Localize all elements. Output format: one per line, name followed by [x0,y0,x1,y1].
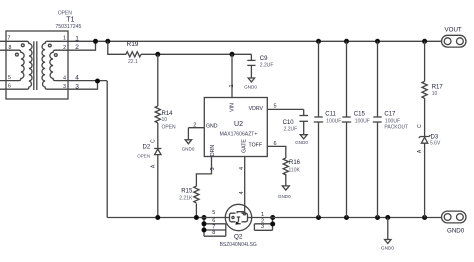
svg-text:VOUT: VOUT [445,26,462,33]
svg-text:R19: R19 [127,41,139,48]
Q2 drain bus pins 1-3 [272,218,274,231]
T1 primary winding A (pins 7-6) [0,41,32,89]
Q2 source bus pins 5-8 [203,218,205,237]
U2 pin 2 GND wire [188,127,204,129]
op IC U2 box [204,98,267,157]
svg-text:6: 6 [8,84,11,90]
resistor R19 [126,52,141,57]
svg-text:1: 1 [229,84,235,87]
junction [316,215,321,220]
svg-text:MAX17606AZT+: MAX17606AZT+ [220,131,258,137]
svg-text:Q2: Q2 [234,234,243,241]
junction [202,215,207,220]
transformer T1 box [6,31,68,99]
svg-text:C11: C11 [325,112,336,118]
svg-text:PACKOUT: PACKOUT [384,124,408,130]
svg-text:GND0: GND0 [295,140,308,145]
svg-text:GND: GND [206,124,218,130]
svg-text:6: 6 [273,141,276,147]
svg-text:R16: R16 [289,160,301,166]
junction [155,215,160,220]
resistor R16 [283,158,288,175]
resistor R14 [155,106,160,123]
svg-text:DRN: DRN [210,145,216,156]
junction [344,39,349,44]
ground GND0 under R16 [282,186,289,190]
svg-text:GND0: GND0 [182,146,195,151]
svg-text:7: 7 [8,35,11,41]
svg-text:VIN: VIN [230,103,236,112]
ground GND0 under U2 GND [185,140,191,144]
svg-text:OPEN: OPEN [137,154,150,159]
ground GND0 on rail [387,218,389,240]
svg-text:C: C [417,124,423,128]
svg-text:C: C [151,139,157,143]
node VOUT top rail [96,40,442,42]
junction [95,79,100,84]
T1 secondary winding B (pins 2-4) [50,41,107,80]
svg-text:4: 4 [239,167,245,170]
transistor Q2 [225,204,251,230]
svg-text:GATE: GATE [242,139,248,153]
junction [202,221,207,226]
svg-text:2.21K: 2.21K [179,195,193,201]
svg-text:U2: U2 [234,121,243,128]
svg-text:3: 3 [75,84,79,91]
svg-text:750317245: 750317245 [55,24,81,30]
svg-text:3: 3 [261,224,264,230]
svg-text:10: 10 [162,117,168,123]
connector GND0 [442,211,467,223]
wire to C9 and VIN [141,53,251,55]
connector VOUT [442,35,467,47]
junction [270,222,275,227]
svg-text:5: 5 [8,75,11,81]
svg-text:C15: C15 [354,112,366,118]
svg-text:2: 2 [75,44,79,51]
junction [344,215,349,220]
capacitor C17 [377,41,379,117]
wire R14/D2 branch [157,54,159,106]
svg-text:D3: D3 [431,134,439,140]
wire pin4 drop [106,81,108,218]
junction [316,39,321,44]
junction [194,215,199,220]
U2 pin 3 DRN wire [196,157,211,187]
svg-text:C17: C17 [384,112,396,118]
svg-text:VDRV: VDRV [249,106,264,112]
diode D2 [154,148,161,150]
svg-text:GND0: GND0 [244,85,257,90]
svg-text:5.6V: 5.6V [430,141,441,147]
svg-text:4: 4 [63,75,66,81]
capacitor C10 [303,109,305,115]
svg-text:GND0: GND0 [447,228,465,235]
resistor R17 [424,41,426,81]
capacitor C9 [250,54,252,60]
svg-text:4: 4 [239,191,245,194]
junction [422,215,427,220]
svg-text:22.1: 22.1 [128,59,138,65]
resistor R15 [194,186,199,203]
U2 pin 4 GATE wire [244,157,246,207]
U2 pin 5 VDRV wire [267,108,303,110]
svg-text:110K: 110K [289,168,301,174]
T1 primary winding B (pins 8-5) [0,50,24,80]
svg-text:GND0: GND0 [381,245,394,250]
svg-text:T1: T1 [66,17,74,24]
ground GND0 under C9 [248,78,254,82]
svg-text:1: 1 [63,35,66,41]
T1 core [33,41,35,90]
junction [270,215,275,220]
ground GND0 under C10 [300,135,307,139]
svg-text:2.2UF: 2.2UF [260,63,274,69]
svg-text:8: 8 [212,230,215,236]
junction [230,52,235,57]
svg-text:R17: R17 [432,85,444,91]
junction [93,39,98,44]
svg-text:4: 4 [75,74,79,81]
svg-text:100UF: 100UF [355,118,370,124]
svg-text:GND0: GND0 [278,194,291,199]
svg-text:R15: R15 [181,188,193,194]
svg-text:3: 3 [63,84,66,90]
junction [422,39,427,44]
node GND0 bottom rail left [107,217,226,219]
U2 pin 1 VIN wire [231,54,233,97]
svg-text:1: 1 [75,36,79,43]
svg-text:D2: D2 [143,145,151,151]
svg-text:OPEN: OPEN [162,125,177,131]
svg-text:5: 5 [273,103,276,109]
junction [375,39,380,44]
T1 primary polarity dots [21,44,24,47]
svg-text:100UF: 100UF [326,118,341,124]
junction [202,228,207,233]
svg-text:3: 3 [210,167,216,170]
T1 secondary winding A (pins 1-3) [42,41,98,89]
svg-text:5: 5 [212,210,215,216]
U2 pin 6 TOFF wire [267,146,286,158]
svg-text:C10: C10 [283,120,295,126]
svg-text:2.2UF: 2.2UF [284,126,298,132]
junction [105,39,110,44]
wire R19 branch [108,41,126,54]
svg-text:8: 8 [9,45,12,51]
junction [385,215,390,220]
svg-text:2: 2 [63,45,66,51]
svg-text:2: 2 [193,122,196,128]
T1 secondary polarity dots [48,44,51,47]
junction [375,215,380,220]
svg-text:C9: C9 [260,56,268,62]
junction [155,52,160,57]
svg-text:10: 10 [432,91,438,97]
node GND0 bottom rail right [251,217,441,219]
svg-text:TOFF: TOFF [249,143,262,149]
capacitor C15 [346,41,348,117]
svg-text:BSZ040N04LSG: BSZ040N04LSG [220,242,257,248]
svg-text:6: 6 [212,218,215,224]
capacitor C11 [318,41,320,117]
